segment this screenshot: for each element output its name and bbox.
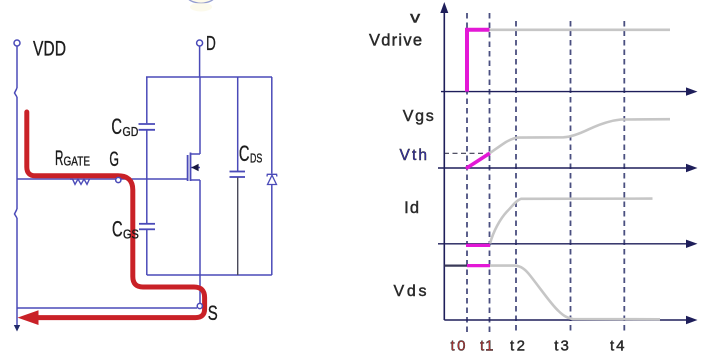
svg-text:Vgs: Vgs [403, 108, 434, 125]
svg-text:Vdrive: Vdrive [369, 31, 422, 49]
svg-text:G: G [109, 148, 119, 171]
svg-text:GD: GD [123, 125, 139, 139]
svg-text:t0: t0 [451, 337, 466, 354]
svg-text:GS: GS [123, 228, 139, 242]
svg-text:R: R [55, 146, 63, 170]
svg-text:Vth: Vth [400, 147, 428, 164]
svg-text:t1: t1 [480, 337, 494, 354]
svg-text:C: C [239, 141, 250, 166]
svg-text:VDD: VDD [33, 38, 66, 61]
svg-text:t4: t4 [610, 337, 625, 354]
svg-text:t3: t3 [554, 337, 569, 354]
svg-text:Id: Id [404, 199, 419, 217]
svg-text:S: S [208, 301, 218, 325]
svg-text:D: D [206, 32, 216, 55]
svg-text:Vds: Vds [394, 283, 427, 300]
svg-text:C: C [111, 114, 122, 139]
svg-text:t2: t2 [510, 337, 525, 354]
svg-text:DS: DS [250, 151, 262, 165]
svg-text:GATE: GATE [64, 154, 91, 169]
svg-text:C: C [112, 217, 123, 242]
svg-text:v: v [410, 9, 420, 26]
